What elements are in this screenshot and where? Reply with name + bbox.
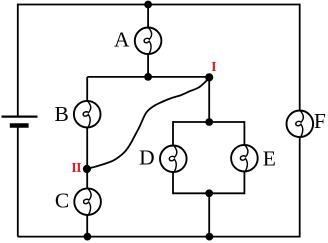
junction dot A branch / middle wire bbox=[144, 73, 152, 81]
wire right bbox=[299, 4, 301, 238]
wire parallel block bottom bbox=[173, 192, 244, 194]
junction dot bottom wire / parallel branch bbox=[206, 233, 214, 241]
node I junction dot bbox=[205, 73, 213, 81]
wire B-C branch bbox=[86, 77, 88, 237]
lamp F bbox=[287, 110, 314, 137]
wire parallel block top bbox=[173, 121, 244, 123]
svg-text:E: E bbox=[263, 146, 276, 170]
node II junction dot bbox=[83, 165, 91, 173]
junction dot top wire / A branch bbox=[144, 1, 152, 9]
wire middle horizontal bbox=[87, 76, 209, 78]
wire left (lower, battery to bottom) bbox=[17, 128, 19, 237]
lamp E bbox=[231, 145, 258, 172]
svg-text:A: A bbox=[114, 27, 130, 51]
svg-text:C: C bbox=[55, 189, 69, 213]
battery plate long (+) bbox=[2, 115, 38, 117]
battery plate short (-) bbox=[10, 123, 29, 128]
svg-text:F: F bbox=[314, 109, 326, 133]
lamp C bbox=[74, 188, 101, 215]
svg-text:II: II bbox=[71, 161, 81, 176]
svg-text:D: D bbox=[139, 145, 155, 169]
wire parallel block left (lamp D branch) bbox=[172, 121, 174, 194]
svg-text:I: I bbox=[211, 60, 216, 75]
lamp D bbox=[160, 145, 187, 172]
wire node I down to parallel block bbox=[208, 77, 210, 122]
wire top bbox=[18, 4, 300, 6]
lamp A bbox=[135, 27, 162, 54]
junction dot parallel block bottom bbox=[205, 189, 213, 197]
lamp B bbox=[74, 101, 101, 128]
wire lamp-A branch bbox=[147, 5, 149, 77]
junction dot parallel block top bbox=[205, 118, 213, 126]
wire curved I to II bbox=[87, 78, 209, 169]
wire left (upper, to battery) bbox=[17, 4, 19, 116]
wire parallel block down to bottom bbox=[208, 193, 210, 236]
junction dot bottom wire / B-C branch bbox=[84, 233, 92, 241]
wire parallel block right (lamp E branch) bbox=[243, 121, 245, 194]
svg-text:B: B bbox=[55, 102, 69, 126]
wire bottom bbox=[18, 236, 300, 238]
